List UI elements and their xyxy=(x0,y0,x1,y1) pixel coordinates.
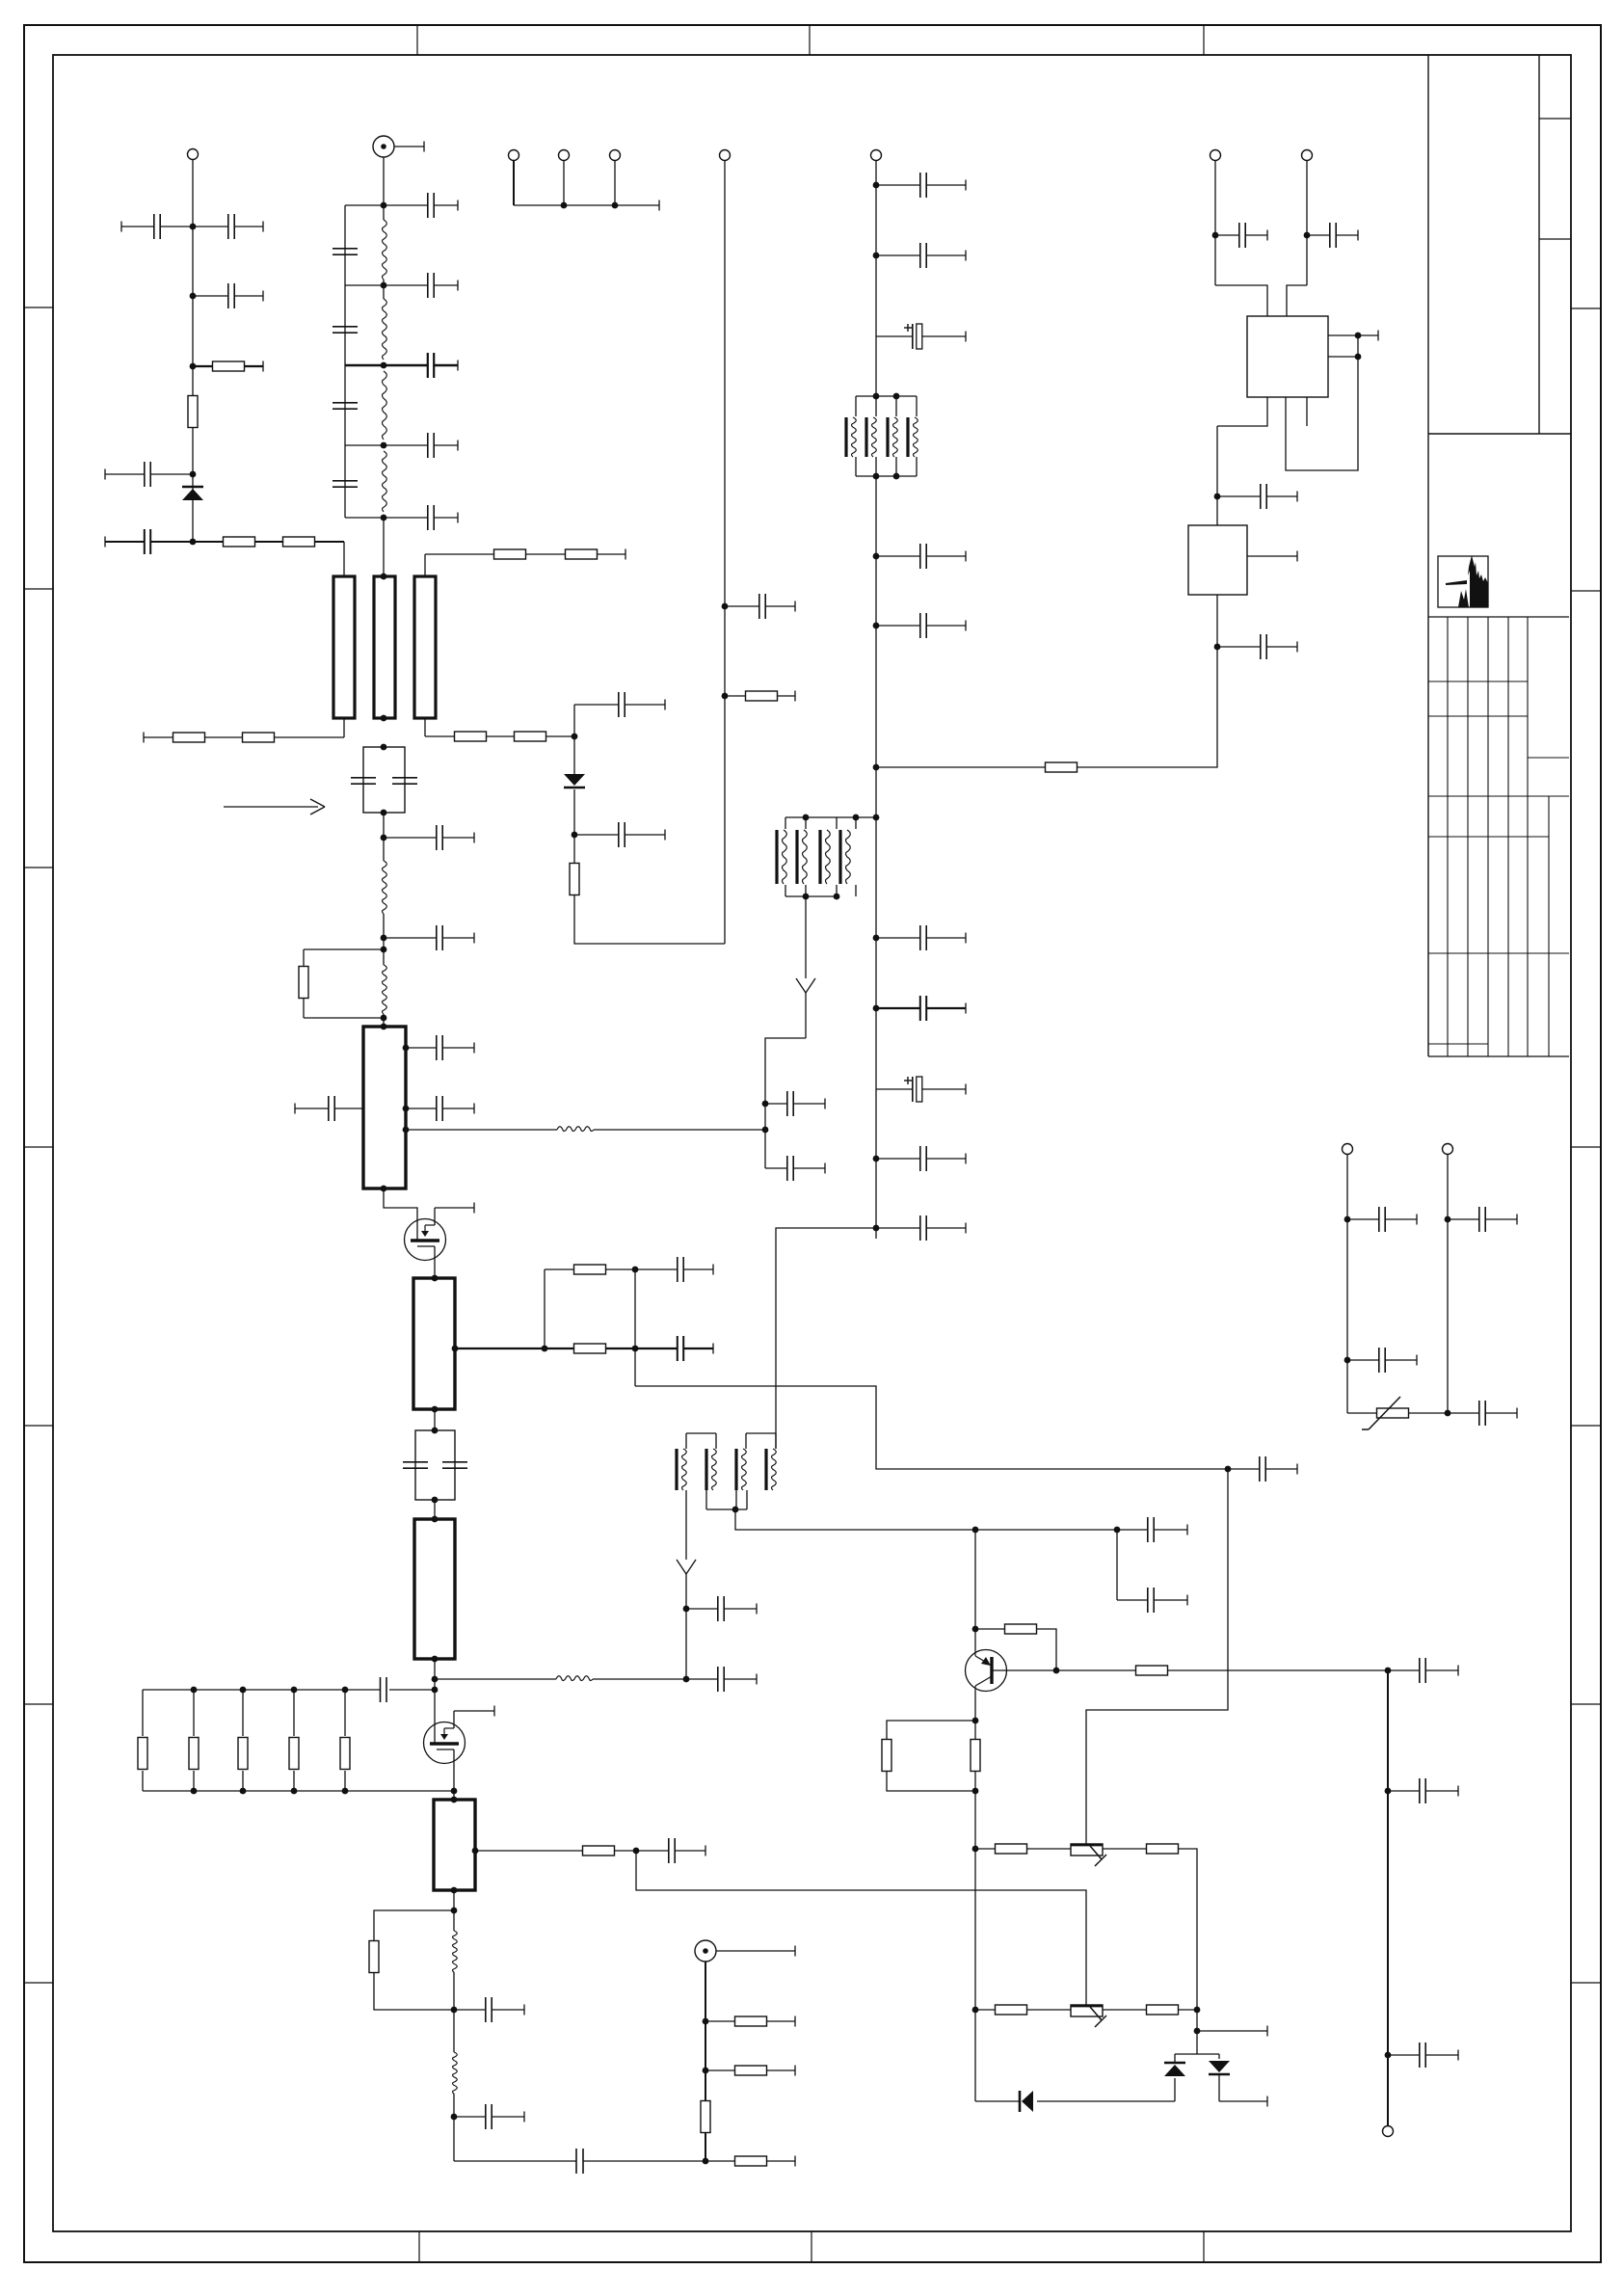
frame fold mark left xyxy=(24,1982,53,1984)
capacitor C29 xyxy=(876,173,966,198)
frame fold mark top xyxy=(1203,25,1205,55)
inductor L1c xyxy=(383,371,387,440)
connector XP2 xyxy=(509,150,519,161)
wire xyxy=(544,1269,545,1348)
node D1 xyxy=(572,734,578,740)
node K3 xyxy=(972,1718,979,1724)
title block column divider xyxy=(1538,55,1540,434)
resistor Rb2 xyxy=(189,1738,199,1770)
wire xyxy=(344,1771,346,1791)
capacitor C50 xyxy=(1388,1778,1458,1803)
capacitor C43 xyxy=(1215,223,1267,248)
capacitor C18b xyxy=(406,1096,474,1121)
node A5 xyxy=(190,539,197,546)
logo box xyxy=(1438,556,1488,607)
transistor VT3 xyxy=(966,1650,1007,1692)
transformer T3 bottom rail xyxy=(686,1490,747,1509)
resistor R24 xyxy=(971,1740,980,1772)
transformer T1 winding4 xyxy=(908,417,918,457)
title table row2 xyxy=(1428,715,1528,717)
wire xyxy=(394,142,424,152)
wire xyxy=(475,1850,583,1852)
node M2 xyxy=(632,1346,639,1352)
resistor R22 xyxy=(1136,1666,1389,1675)
terminal xyxy=(658,200,660,211)
transistor VT2 xyxy=(424,1722,466,1801)
wire xyxy=(304,1017,384,1019)
inductor L4 xyxy=(556,1676,593,1681)
title block left edge xyxy=(1427,55,1429,1056)
transformer T3 winding4 xyxy=(766,1449,776,1490)
node W4 right tap1 xyxy=(403,1045,410,1052)
node W6 top xyxy=(432,1516,439,1523)
node K8 xyxy=(1194,2028,1201,2035)
title table col3 xyxy=(1487,617,1489,1056)
wire xyxy=(1219,2096,1267,2107)
resistor R29 xyxy=(705,2156,795,2167)
diode VD4 xyxy=(1209,2061,1230,2074)
title table row1 xyxy=(1428,681,1528,682)
wire drain stub xyxy=(435,1203,474,1214)
capacitor C14 xyxy=(384,505,458,530)
resistor R25 xyxy=(975,1844,1071,1854)
node G4 xyxy=(803,894,810,900)
node T2 xyxy=(381,810,387,816)
transformer T3 winding1 xyxy=(677,1449,686,1490)
capacitor C15 xyxy=(384,825,474,850)
diode VD3 xyxy=(1164,2063,1185,2076)
wire xyxy=(974,1849,976,2101)
wire xyxy=(573,789,575,864)
capacitor C55 xyxy=(1448,1401,1517,1426)
wire bus xyxy=(514,204,659,206)
transformer T1 winding3 xyxy=(888,417,897,457)
wire xyxy=(193,1771,195,1791)
wire xyxy=(1328,331,1378,341)
wire xyxy=(1196,2010,1198,2054)
title block right cell row1 xyxy=(1539,118,1571,120)
wire xyxy=(876,766,1046,768)
wire xyxy=(345,517,384,519)
wire xyxy=(424,718,426,736)
transformer T2 winding2 xyxy=(797,830,807,884)
node W2 top xyxy=(381,574,387,580)
node A3 xyxy=(190,363,197,370)
node T5 xyxy=(381,947,387,953)
trimmer cap box CT1 xyxy=(363,747,405,813)
capacitor C10 xyxy=(384,193,458,218)
capacitor C37 xyxy=(876,996,966,1021)
signal arrow 2 xyxy=(677,1560,696,1584)
node W5 bottom xyxy=(432,1406,439,1413)
capacitor C44 xyxy=(1307,223,1358,248)
wire xyxy=(686,1433,776,1449)
wire xyxy=(875,396,877,476)
diode VD5 xyxy=(1020,2091,1033,2112)
frame fold mark left xyxy=(24,588,53,590)
node L1 xyxy=(381,202,387,209)
node F8 xyxy=(873,1156,880,1162)
connector XP4 xyxy=(610,150,621,161)
capacitor C31 polarized xyxy=(876,324,966,349)
wire gate path xyxy=(384,1188,417,1240)
resistor R27 xyxy=(975,2005,1071,2015)
resistor R6 xyxy=(243,733,345,742)
node T1b xyxy=(893,393,900,400)
wire xyxy=(293,1690,295,1736)
capacitor C25 series xyxy=(576,2149,705,2174)
wire xyxy=(1247,551,1297,562)
node F6 xyxy=(873,935,880,942)
inductor L5 xyxy=(453,1931,458,1972)
node S3 xyxy=(1445,1216,1451,1223)
node S2 xyxy=(1344,1357,1351,1364)
node L4 xyxy=(381,442,387,449)
wire diode row xyxy=(975,2100,1175,2102)
wire pin stub xyxy=(1306,397,1308,426)
diode VD1 xyxy=(182,487,203,500)
frame fold mark top xyxy=(416,25,418,55)
diode VD2 xyxy=(564,774,585,788)
wire xyxy=(735,1509,975,1530)
node W4 top xyxy=(381,1024,387,1030)
node H4 xyxy=(1304,232,1311,239)
wire ladder left branch xyxy=(344,205,346,518)
wire xyxy=(1086,1469,1228,1844)
wire loop left xyxy=(374,1910,454,1941)
signal arrow 1 xyxy=(796,978,815,1002)
node N1 xyxy=(432,1676,439,1683)
node K4 xyxy=(972,1788,979,1795)
node N3 xyxy=(432,1687,439,1694)
wire xyxy=(1175,2053,1219,2055)
wire xyxy=(614,160,616,205)
wire xyxy=(975,1529,1117,1531)
capacitor C52 xyxy=(1347,1207,1417,1232)
capacitor C17 xyxy=(406,1035,474,1060)
node E1 xyxy=(722,603,729,610)
resistor Rb4 xyxy=(289,1738,299,1770)
capacitor C7 xyxy=(333,327,358,333)
capacitor C20 xyxy=(686,1667,757,1692)
trimmer resistor RP1 xyxy=(1071,1844,1106,1866)
node S1 xyxy=(1344,1216,1351,1223)
wire xyxy=(383,280,385,299)
IC U1 xyxy=(1247,316,1328,397)
resistor R19 xyxy=(725,691,795,702)
resistor R10 xyxy=(515,732,575,741)
capacitor C54 xyxy=(1448,1207,1517,1232)
node M1 xyxy=(542,1346,548,1352)
node K6 xyxy=(972,2007,979,2014)
wire xyxy=(593,1678,686,1680)
node W7 bottom xyxy=(451,1887,458,1894)
frame fold mark left xyxy=(24,867,53,868)
resistor R20 xyxy=(1046,762,1078,772)
wire xyxy=(425,735,455,737)
node bank top 3 xyxy=(291,1687,298,1694)
frame fold mark bottom xyxy=(811,2231,812,2262)
node P3 xyxy=(451,2007,458,2014)
capacitor C45 xyxy=(686,1596,757,1621)
wire xyxy=(785,817,786,896)
wire xyxy=(875,160,877,396)
wire long xyxy=(635,1386,1228,1469)
node P4 xyxy=(451,2114,458,2121)
capacitor C28 xyxy=(725,594,795,619)
trimmer cap right plates xyxy=(392,778,417,784)
wire top bus xyxy=(143,1689,380,1691)
resistor R23 xyxy=(882,1740,891,1772)
wire xyxy=(875,817,877,1239)
wire xyxy=(424,554,426,576)
node T1 xyxy=(381,744,387,751)
IC U2 xyxy=(1188,525,1247,595)
resistor R18 xyxy=(570,864,579,895)
resistor R28 xyxy=(1103,2005,1197,2015)
varistor RU1 xyxy=(1362,1397,1409,1429)
node D2 xyxy=(572,832,578,839)
capacitor C48 xyxy=(1228,1456,1297,1482)
wire xyxy=(383,1014,385,1027)
wire xyxy=(192,160,194,542)
node Q2 xyxy=(703,2068,709,2074)
wire xyxy=(345,284,384,286)
resistor R16 xyxy=(705,2066,795,2076)
wire xyxy=(303,949,305,1018)
node bank top 4 xyxy=(342,1687,349,1694)
wire xyxy=(425,553,494,555)
connector XP3 xyxy=(559,150,570,161)
capacitor C47 xyxy=(1117,1588,1187,1613)
transformer T2 winding1 xyxy=(777,830,786,884)
trimmer cap2 left plates xyxy=(403,1462,428,1468)
node S4 xyxy=(1445,1410,1451,1417)
wire xyxy=(574,895,725,944)
frame fold mark right xyxy=(1571,1146,1601,1148)
wire xyxy=(374,1972,454,2010)
title table row5 xyxy=(1428,836,1549,838)
wire xyxy=(1346,1154,1348,1413)
wire xyxy=(435,1678,556,1680)
wire pin path xyxy=(1286,335,1358,470)
wire xyxy=(344,1690,346,1736)
transformer T3 top rails xyxy=(686,1432,776,1434)
node T8 xyxy=(432,1497,439,1504)
node A4 xyxy=(190,471,197,478)
wire xyxy=(453,2094,455,2161)
wire xyxy=(1078,595,1217,767)
wire xyxy=(142,1771,144,1791)
title table row7 xyxy=(1428,1043,1488,1045)
resistor R12 xyxy=(545,1344,635,1353)
resistor Rb1 xyxy=(138,1738,147,1770)
node W7 top xyxy=(451,1797,458,1803)
title table row3 xyxy=(1528,757,1569,759)
title table bottom xyxy=(1428,1055,1569,1057)
frame fold mark right xyxy=(1571,590,1601,592)
wire stub xyxy=(1197,2026,1267,2037)
resistor R2 xyxy=(188,396,198,428)
capacitor C2 xyxy=(193,214,263,239)
title table col5 xyxy=(1527,617,1529,1056)
node Q3 xyxy=(703,2158,709,2165)
inductor L2 xyxy=(383,861,387,914)
wire bold row xyxy=(345,364,384,366)
wire xyxy=(1056,1669,1136,1671)
frame fold mark right xyxy=(1571,1982,1601,1984)
node B1 xyxy=(561,202,568,209)
TL line W1 xyxy=(333,576,355,718)
coax connector XW2 xyxy=(695,1940,716,1962)
capacitor C26 xyxy=(574,692,665,717)
capacitor C6 xyxy=(333,249,358,254)
capacitor C36 xyxy=(876,925,966,950)
resistor R17 xyxy=(701,2101,710,2133)
node W7 tap xyxy=(472,1848,479,1855)
node Q1 xyxy=(703,2018,709,2025)
wire xyxy=(193,1690,195,1736)
node K7 xyxy=(1194,2007,1201,2014)
trimmer cap left plates xyxy=(351,778,376,784)
node F1 xyxy=(873,182,880,189)
wire xyxy=(716,1946,795,1957)
wire pin xyxy=(1217,397,1267,426)
capacitor C9 xyxy=(333,481,358,487)
node W6 bottom xyxy=(432,1656,439,1663)
node R1440 xyxy=(1385,1668,1392,1674)
frame fold mark right xyxy=(1571,1425,1601,1427)
node T1a xyxy=(873,393,880,400)
wire xyxy=(434,1409,436,1430)
wire xyxy=(304,948,384,950)
node K1 xyxy=(972,1626,979,1633)
frame fold mark bottom xyxy=(1203,2231,1205,2262)
frame fold mark right xyxy=(1571,1703,1601,1705)
inductor L6 xyxy=(453,2052,458,2094)
wire xyxy=(636,1851,1086,2005)
node H2 xyxy=(1214,644,1221,651)
node F3 xyxy=(873,553,880,560)
node T3 xyxy=(381,835,387,841)
wire xyxy=(1218,2054,1220,2101)
connector XP6 xyxy=(871,150,882,161)
node A1 xyxy=(190,224,197,230)
resistor R13 xyxy=(583,1846,637,1855)
capacitor C19 xyxy=(635,1336,713,1361)
node R2 xyxy=(1385,1788,1392,1795)
wire xyxy=(1174,2054,1176,2063)
capacitor C18 xyxy=(295,1096,363,1121)
wire xyxy=(242,1690,244,1736)
resistor R5 xyxy=(173,733,244,742)
node L5 xyxy=(381,515,387,521)
capacitor C4 xyxy=(105,462,193,487)
logo glyph xyxy=(1446,555,1488,607)
capacitor C40 xyxy=(876,1215,966,1241)
trimmer cap box CT2 xyxy=(415,1430,455,1500)
resistor Rb3 xyxy=(238,1738,248,1770)
node W5 tap xyxy=(452,1346,459,1352)
capacitor C41 xyxy=(1217,484,1297,509)
capacitor C39 xyxy=(876,1146,966,1171)
capacitor C13 xyxy=(384,433,458,458)
node bank bottom xyxy=(191,1788,198,1795)
TL line W4 xyxy=(363,1027,406,1188)
transformer T2 rails xyxy=(785,817,876,896)
TL line W7 xyxy=(434,1800,475,1890)
node M3 xyxy=(632,1267,639,1273)
TL line W2 xyxy=(374,576,395,718)
resistor R8 xyxy=(566,549,626,560)
trimmer cap2 right plates xyxy=(442,1462,467,1468)
transformer T1 winding1 xyxy=(846,417,856,457)
capacitor C49 xyxy=(1388,1658,1458,1683)
wire xyxy=(406,1129,557,1131)
frame fold mark left xyxy=(24,307,53,308)
wire xyxy=(242,1771,244,1791)
resistor R12a xyxy=(545,1265,635,1274)
connector XP5 xyxy=(720,150,731,161)
wire xyxy=(836,817,838,896)
capacitor C23 xyxy=(454,1997,524,2022)
node H5 xyxy=(1355,333,1362,339)
wire base xyxy=(992,1669,1056,1671)
tuning arrow xyxy=(224,799,325,814)
node bank bottom xyxy=(342,1788,349,1795)
wire xyxy=(343,542,345,576)
trimmer resistor RP2 xyxy=(1071,2005,1106,2027)
node K5 xyxy=(972,1846,979,1853)
capacitor C5 xyxy=(105,529,193,554)
wire xyxy=(1387,1670,1389,2126)
node W4 right tap2 xyxy=(403,1106,410,1112)
resistor R26 xyxy=(1103,1844,1197,2010)
transformer T3 winding3 xyxy=(736,1449,746,1490)
TL line W5 xyxy=(413,1278,455,1409)
node bank top 1 xyxy=(191,1687,198,1694)
node H1 xyxy=(1214,494,1221,500)
capacitor C34 xyxy=(765,1091,825,1116)
wire xyxy=(144,733,173,743)
title table col4 xyxy=(1507,617,1509,1056)
node T4 xyxy=(381,935,387,942)
node F5 xyxy=(873,764,880,771)
wire xyxy=(974,1691,976,1741)
resistor R14 xyxy=(369,1941,379,1973)
resistor R4 xyxy=(283,537,345,547)
node P2 xyxy=(451,1908,458,1914)
capacitor C42 xyxy=(1217,634,1297,659)
transformer T3 winding2 xyxy=(706,1449,716,1490)
wire xyxy=(805,817,807,896)
wire xyxy=(1408,1412,1448,1414)
wire xyxy=(634,1269,636,1386)
inductor L1a xyxy=(383,220,387,280)
wire xyxy=(1215,285,1267,316)
capacitor C3 xyxy=(193,283,263,308)
inductor L1b xyxy=(383,299,387,360)
wire xyxy=(1174,2078,1176,2101)
node G7 xyxy=(762,1127,769,1134)
node B2 xyxy=(612,202,619,209)
wire gate stub xyxy=(454,1706,494,1717)
node T7 xyxy=(432,1428,439,1434)
wire xyxy=(453,1890,455,1931)
node F2 xyxy=(873,253,880,259)
transformer T2 winding3 xyxy=(820,830,830,884)
wire xyxy=(1216,426,1218,525)
